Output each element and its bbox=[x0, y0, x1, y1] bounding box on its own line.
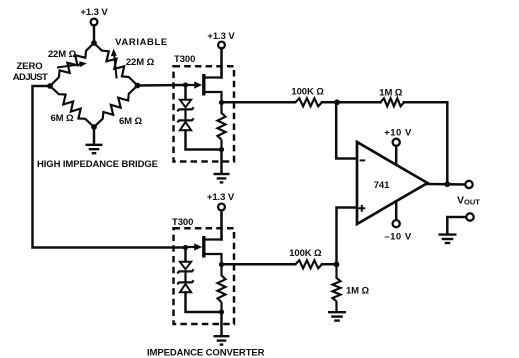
resistor 6M left (bottom-left arm) bbox=[50, 86, 94, 127]
wire lower T300 output to 100K bbox=[224, 263, 295, 266]
node bridge bottom bbox=[91, 124, 97, 130]
power terminal +1.3V bridge bbox=[91, 19, 98, 26]
svg-text:VOUT: VOUT bbox=[457, 195, 480, 207]
svg-text:HIGH IMPEDANCE BRIDGE: HIGH IMPEDANCE BRIDGE bbox=[37, 159, 158, 170]
op-amp U1 741 bbox=[357, 142, 428, 224]
wire node B to non-inverting input bbox=[337, 208, 357, 265]
resistor Q2 source load lower bbox=[218, 265, 226, 313]
minus sign inverting input bbox=[360, 159, 366, 161]
wire 100K to node B bbox=[322, 263, 337, 266]
svg-text:6M Ω: 6M Ω bbox=[50, 113, 74, 124]
node bridge top bbox=[91, 40, 97, 46]
ground lower T300 bbox=[214, 335, 230, 337]
wire node A to 1M feedback bbox=[337, 101, 381, 104]
svg-text:1M Ω: 1M Ω bbox=[346, 286, 370, 297]
power terminal +1.3V lower T300 bbox=[218, 204, 225, 211]
zener diodes D3 D4 lower (back-to-back) bbox=[180, 262, 191, 269]
wire bridge right node to upper T300 gate bbox=[138, 84, 184, 87]
transistor Q2 T300 lower bbox=[202, 236, 205, 258]
node bridge left bbox=[47, 83, 53, 89]
wire bridge bottom to ground bbox=[93, 129, 96, 145]
ground lower 1M bbox=[328, 311, 346, 313]
node lower T300 bottom bbox=[219, 309, 224, 314]
power terminal +10V bbox=[393, 139, 400, 146]
dashed enclosure upper T300 bbox=[174, 66, 235, 161]
svg-text:22M Ω: 22M Ω bbox=[48, 49, 77, 60]
svg-text:–10 V: –10 V bbox=[384, 232, 411, 243]
svg-text:+1.3 V: +1.3 V bbox=[207, 192, 235, 203]
wire supply to Q2 drain bbox=[220, 210, 223, 239]
svg-text:ZERO: ZERO bbox=[17, 61, 43, 72]
node B non-inverting input junction bbox=[334, 262, 340, 268]
transistor Q1 T300 upper bbox=[202, 74, 205, 96]
wire reference terminal to ground bbox=[447, 217, 466, 234]
wire gate to zener pair upper bbox=[184, 88, 187, 100]
resistor 1M feedback bbox=[381, 98, 405, 106]
wire upper T300 to ground bbox=[220, 152, 223, 174]
node output junction bbox=[444, 181, 450, 187]
svg-text:+1.3 V: +1.3 V bbox=[80, 7, 108, 18]
svg-text:IMPEDANCE CONVERTER: IMPEDANCE CONVERTER bbox=[147, 348, 265, 358]
wire supply to bridge top bbox=[93, 25, 96, 41]
ground bridge bbox=[86, 144, 103, 146]
arrow zero-adjust variable bbox=[57, 64, 81, 67]
wire 100K to node A bbox=[322, 101, 337, 104]
resistor 6M right (bottom-right arm) bbox=[94, 86, 138, 128]
node Q2 source bbox=[219, 262, 224, 267]
power terminal -10V bbox=[393, 220, 400, 227]
svg-text:+1.3 V: +1.3 V bbox=[207, 31, 235, 42]
wire +10V supply to op-amp bbox=[395, 146, 398, 165]
ground upper T300 bbox=[214, 173, 230, 175]
wire 1M feedback to output node bbox=[404, 102, 447, 184]
arrow variable resistor bbox=[114, 55, 116, 79]
svg-text:6M Ω: 6M Ω bbox=[119, 116, 143, 127]
wire upper T300 output to 100K bbox=[224, 101, 295, 104]
wire zener to source-resistor bottom lower bbox=[186, 292, 222, 312]
svg-text:VARIABLE: VARIABLE bbox=[115, 37, 168, 48]
wire node A to inverting input bbox=[336, 102, 356, 158]
wire supply to Q1 drain bbox=[220, 48, 223, 77]
wire gate to zener pair lower bbox=[184, 250, 187, 262]
plus sign non-inverting input bbox=[358, 205, 365, 212]
wire zener to source-resistor bottom upper bbox=[186, 130, 222, 149]
node Q2 gate bbox=[183, 245, 188, 250]
node upper T300 bottom bbox=[219, 147, 224, 152]
svg-text:T300: T300 bbox=[172, 217, 193, 228]
resistor 100K lower bbox=[296, 260, 323, 268]
node A inverting input junction bbox=[334, 99, 340, 105]
resistor 100K upper bbox=[296, 98, 323, 106]
svg-text:22M Ω: 22M Ω bbox=[126, 57, 155, 68]
svg-text:+10 V: +10 V bbox=[384, 127, 412, 138]
wire op-amp to -10V supply bbox=[395, 201, 398, 220]
svg-text:100K Ω: 100K Ω bbox=[289, 248, 322, 259]
wire lower T300 to ground bbox=[220, 314, 223, 336]
resistor Q1 source load upper bbox=[218, 103, 226, 150]
svg-text:ADJUST: ADJUST bbox=[13, 72, 48, 83]
node Q1 source bbox=[219, 100, 224, 105]
terminal VOUT bbox=[465, 181, 472, 188]
power terminal +1.3V upper T300 bbox=[218, 42, 225, 49]
resistor 1M to ground lower bbox=[333, 264, 341, 311]
dashed enclosure lower T300 bbox=[174, 228, 235, 324]
wire op-amp output to VOUT terminal bbox=[428, 183, 466, 186]
node bridge right bbox=[135, 83, 141, 89]
resistor R 22M variable (top-right arm) bbox=[94, 43, 138, 86]
svg-text:T300: T300 bbox=[174, 54, 195, 65]
zener diodes D1 D2 upper (back-to-back) bbox=[180, 100, 191, 107]
wire zero-adjust node to lower impedance converter gate bbox=[33, 86, 184, 248]
terminal output ground reference bbox=[466, 213, 473, 220]
node Q1 gate bbox=[183, 82, 188, 87]
svg-text:100K Ω: 100K Ω bbox=[291, 87, 324, 98]
svg-text:741: 741 bbox=[374, 180, 390, 191]
resistor R 22M zero-adjust (top-left arm) bbox=[50, 43, 94, 86]
ground output reference bbox=[439, 233, 457, 235]
